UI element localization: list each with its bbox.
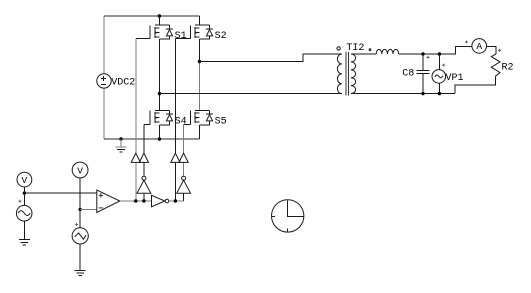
wire: secondary bottom lead bbox=[351, 93, 455, 95]
ground (bottom rail) bbox=[116, 139, 127, 152]
svg-text:R2: R2 bbox=[502, 62, 514, 73]
wire: secondary top to output corner bbox=[399, 46, 472, 54]
voltage probe V (right) bbox=[72, 162, 88, 178]
wire: secondary top lead bbox=[351, 53, 376, 55]
node: top rail junction bbox=[158, 14, 161, 17]
NOT gate (right, column D) bbox=[182, 176, 186, 180]
clock symbol bbox=[272, 200, 304, 232]
resistor R2 bbox=[491, 54, 500, 76]
node: carrier junction bbox=[78, 208, 81, 211]
diode (body) of S1 bbox=[166, 30, 172, 36]
wire: V2 probe down to junction bbox=[79, 178, 81, 210]
transformer phase dot (secondary) bbox=[369, 49, 371, 51]
node: output junction A bbox=[134, 199, 137, 202]
node: VP1 bottom junction bbox=[438, 92, 441, 95]
voltage probe V (left) bbox=[17, 172, 32, 187]
node: output junction C bbox=[174, 199, 177, 202]
capacitor C8 bbox=[416, 54, 429, 94]
polarity mark (ammeter) bbox=[465, 41, 468, 44]
on-off controller D bbox=[179, 153, 188, 162]
wire: left leg to transformer primary bottom bbox=[159, 93, 341, 95]
MOSFET S5 bbox=[198, 62, 200, 111]
wire: inverter output to right columns bbox=[169, 200, 184, 202]
ground (sine source) bbox=[19, 240, 30, 245]
node: C8 top junction bbox=[421, 52, 424, 55]
svg-text:S1: S1 bbox=[175, 31, 187, 42]
svg-text:C8: C8 bbox=[402, 69, 414, 80]
MOSFET S2 bbox=[175, 16, 212, 39]
on-off controller A bbox=[131, 153, 140, 162]
svg-text:V: V bbox=[77, 165, 83, 176]
polarity mark (C8) bbox=[427, 56, 430, 59]
wire: bottom rail bbox=[104, 138, 199, 140]
ammeter A bbox=[472, 39, 487, 54]
node: bottom rail ground junction bbox=[119, 137, 122, 140]
node: output junction B bbox=[142, 199, 145, 202]
wire: op-amp - input bbox=[80, 208, 97, 210]
on-off controller C bbox=[171, 153, 180, 162]
svg-text:VP1: VP1 bbox=[446, 73, 464, 84]
MOSFET S1 bbox=[136, 16, 173, 39]
node: VP1 top junction bbox=[438, 52, 441, 55]
svg-text:S4: S4 bbox=[175, 116, 187, 127]
wire: triangle source to ground bbox=[79, 244, 81, 270]
svg-text:VDC2: VDC2 bbox=[111, 77, 135, 88]
transformer phase dot (primary) bbox=[337, 47, 340, 50]
triangle-wave source VTRI bbox=[72, 228, 88, 244]
voltage source VDC2 bbox=[97, 74, 111, 88]
wire: left leg S1 source to S4 drain bbox=[158, 39, 160, 93]
op-amp comparator U1 bbox=[97, 190, 120, 213]
polarity mark (triangle source) bbox=[75, 223, 78, 226]
node: C8 bottom junction bbox=[421, 92, 424, 95]
wire: V probe lead bbox=[23, 187, 25, 193]
wire: sine source to ground bbox=[23, 221, 25, 240]
wire: junction to triangle source bbox=[79, 209, 81, 227]
diode (body) of S4 bbox=[166, 115, 172, 121]
NOT gate (left, column B) bbox=[142, 176, 146, 180]
svg-text:V: V bbox=[22, 175, 28, 186]
inductor (secondary series) bbox=[376, 49, 398, 54]
arrow of S2 bbox=[195, 31, 198, 34]
MOSFET S4 bbox=[144, 94, 173, 139]
gate wire column C (S2) bbox=[174, 38, 176, 201]
polarity mark (VP1) bbox=[442, 64, 445, 67]
node: bottom rail S4 source junction bbox=[158, 137, 161, 140]
wire: comparator output bbox=[120, 200, 152, 202]
sine source VSIN bbox=[16, 205, 32, 221]
wire: junction to sine source bbox=[23, 193, 25, 205]
on-off controller B bbox=[139, 153, 148, 162]
buffer inverter (horizontal) bbox=[152, 195, 165, 207]
svg-text:TI2: TI2 bbox=[346, 43, 364, 54]
svg-text:S5: S5 bbox=[215, 116, 227, 127]
ground (triangle source) bbox=[75, 270, 86, 275]
polarity mark (R2) bbox=[498, 49, 501, 52]
diode (body) of S2 bbox=[206, 30, 212, 36]
diode (body) of S5 bbox=[206, 115, 212, 121]
transformer TI2 secondary winding bbox=[351, 54, 356, 94]
gate wire column A (S1) bbox=[135, 38, 137, 201]
wire: ammeter to R2 top bbox=[487, 46, 497, 54]
arrow of S5 bbox=[195, 116, 198, 119]
svg-text:A: A bbox=[476, 41, 482, 52]
gate wire column B (S4) bbox=[143, 124, 145, 176]
svg-text:S2: S2 bbox=[215, 31, 227, 42]
wire: right leg S2 source to junction bbox=[198, 39, 200, 61]
polarity mark (sine source) bbox=[19, 200, 22, 203]
wire: op-amp + input bbox=[24, 192, 96, 194]
node: right leg output junction bbox=[198, 60, 201, 63]
wire: right leg to transformer primary top bbox=[199, 54, 341, 62]
wire: top rail bbox=[104, 15, 199, 17]
node: left leg output junction bbox=[158, 92, 161, 95]
arrow of S1 bbox=[155, 31, 158, 34]
transformer TI2 core bbox=[346, 52, 349, 96]
node: V probe / sine source junction bbox=[23, 191, 26, 194]
gate wire column D (S5) bbox=[183, 124, 185, 176]
wire: R2 bottom return bbox=[455, 76, 495, 93]
arrow of S4 bbox=[155, 116, 158, 119]
wire: DC bus left column bbox=[103, 16, 105, 139]
voltage probe VP1 bbox=[432, 54, 446, 94]
transformer TI2 primary winding bbox=[337, 54, 341, 94]
